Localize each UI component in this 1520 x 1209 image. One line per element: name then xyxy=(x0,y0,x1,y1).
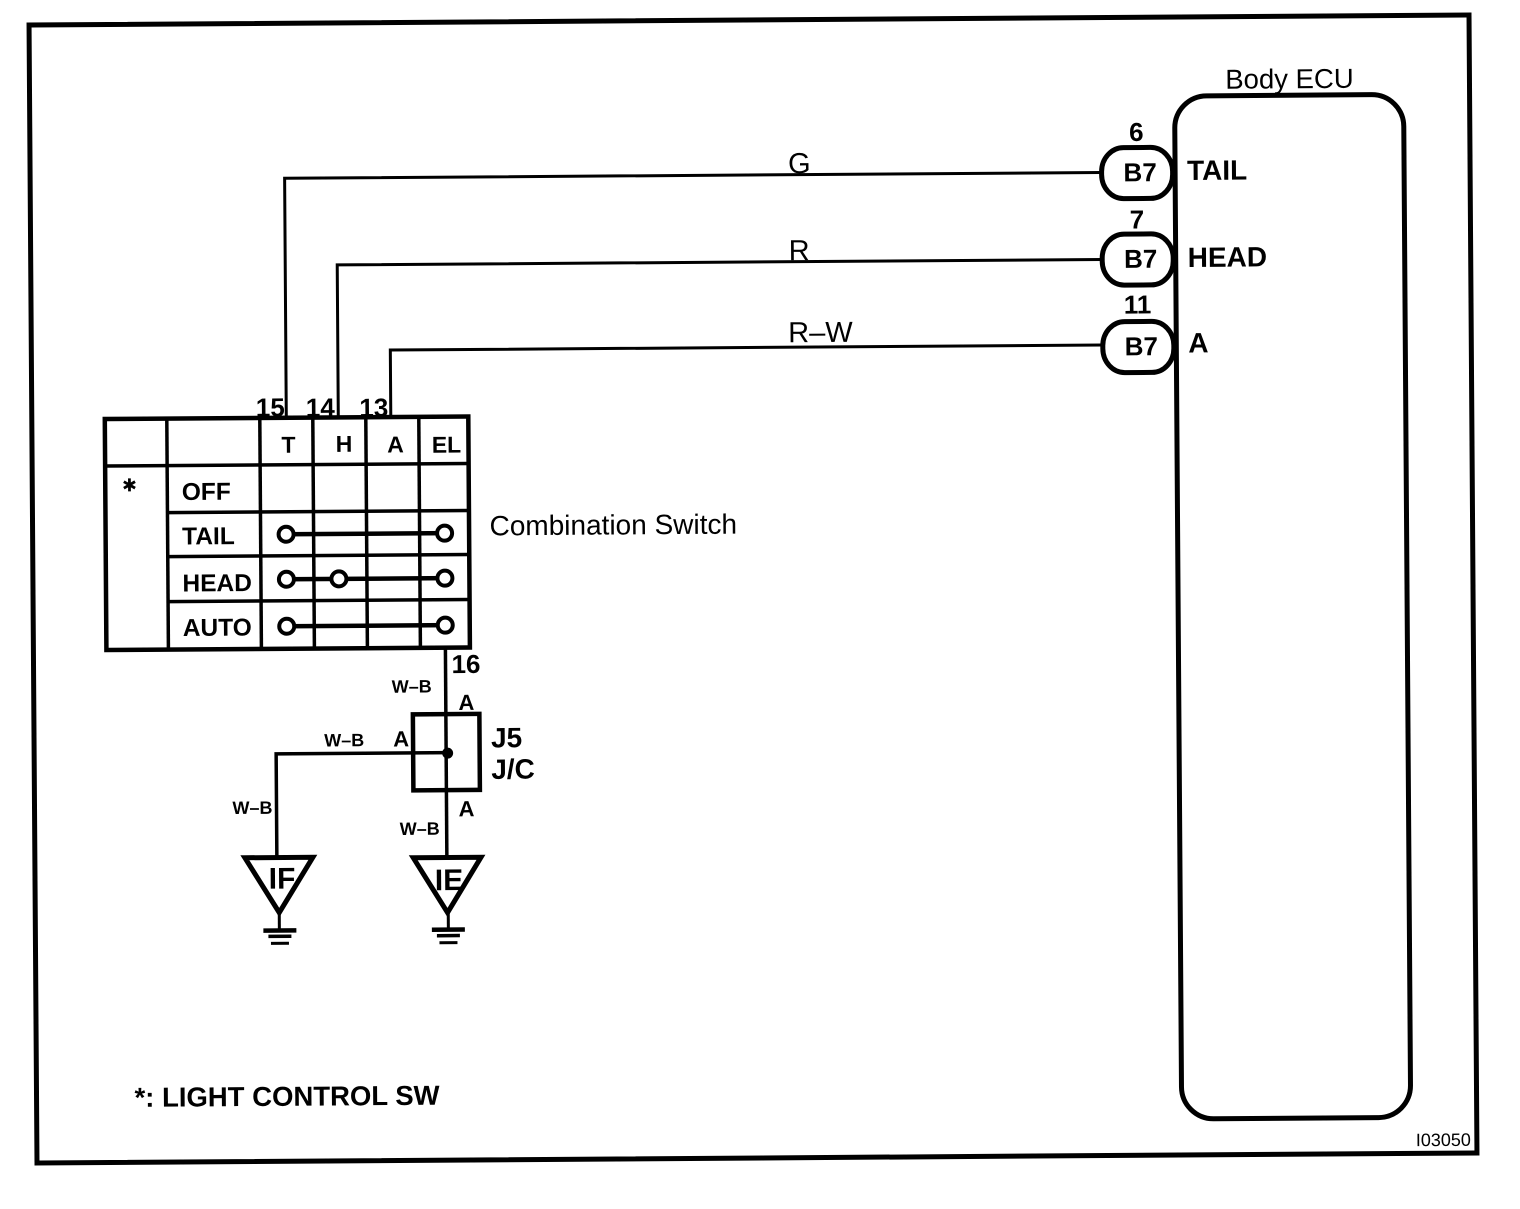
svg-text:W–B: W–B xyxy=(232,798,272,818)
svg-text:TAIL: TAIL xyxy=(1187,155,1247,186)
svg-text:R–W: R–W xyxy=(788,317,853,349)
svg-text:HEAD: HEAD xyxy=(1188,241,1268,273)
svg-text:Combination Switch: Combination Switch xyxy=(489,509,737,542)
svg-text:*: LIGHT CONTROL SW: *: LIGHT CONTROL SW xyxy=(134,1080,439,1113)
svg-text:Body ECU: Body ECU xyxy=(1225,63,1354,95)
svg-text:TAIL: TAIL xyxy=(182,523,235,550)
svg-text:B7: B7 xyxy=(1124,244,1157,274)
svg-text:HEAD: HEAD xyxy=(182,570,252,597)
svg-text:EL: EL xyxy=(432,432,462,458)
svg-text:W–B: W–B xyxy=(392,676,432,696)
svg-text:14: 14 xyxy=(306,392,336,422)
svg-text:B7: B7 xyxy=(1123,157,1156,187)
svg-text:H: H xyxy=(336,431,353,457)
svg-text:J5: J5 xyxy=(491,722,522,753)
svg-text:11: 11 xyxy=(1124,289,1152,319)
svg-text:R: R xyxy=(789,235,810,267)
svg-text:A: A xyxy=(458,796,474,821)
svg-text:A: A xyxy=(393,726,409,751)
svg-text:G: G xyxy=(788,148,811,180)
svg-text:A: A xyxy=(1188,327,1208,358)
svg-text:13: 13 xyxy=(359,393,388,423)
svg-text:6: 6 xyxy=(1129,117,1144,147)
svg-text:7: 7 xyxy=(1130,204,1145,234)
svg-text:16: 16 xyxy=(451,649,480,679)
svg-text:A: A xyxy=(387,431,404,457)
svg-text:W–B: W–B xyxy=(400,819,440,839)
svg-text:J/C: J/C xyxy=(491,754,535,785)
svg-text:IF: IF xyxy=(269,863,296,896)
svg-text:B7: B7 xyxy=(1125,331,1158,361)
svg-text:T: T xyxy=(281,432,295,458)
svg-text:I03050: I03050 xyxy=(1416,1130,1471,1150)
svg-text:OFF: OFF xyxy=(182,479,231,506)
svg-text:W–B: W–B xyxy=(324,730,364,750)
svg-text:A: A xyxy=(458,690,474,715)
svg-text:IE: IE xyxy=(435,864,464,897)
svg-text:AUTO: AUTO xyxy=(183,615,252,642)
svg-text:15: 15 xyxy=(256,392,285,422)
